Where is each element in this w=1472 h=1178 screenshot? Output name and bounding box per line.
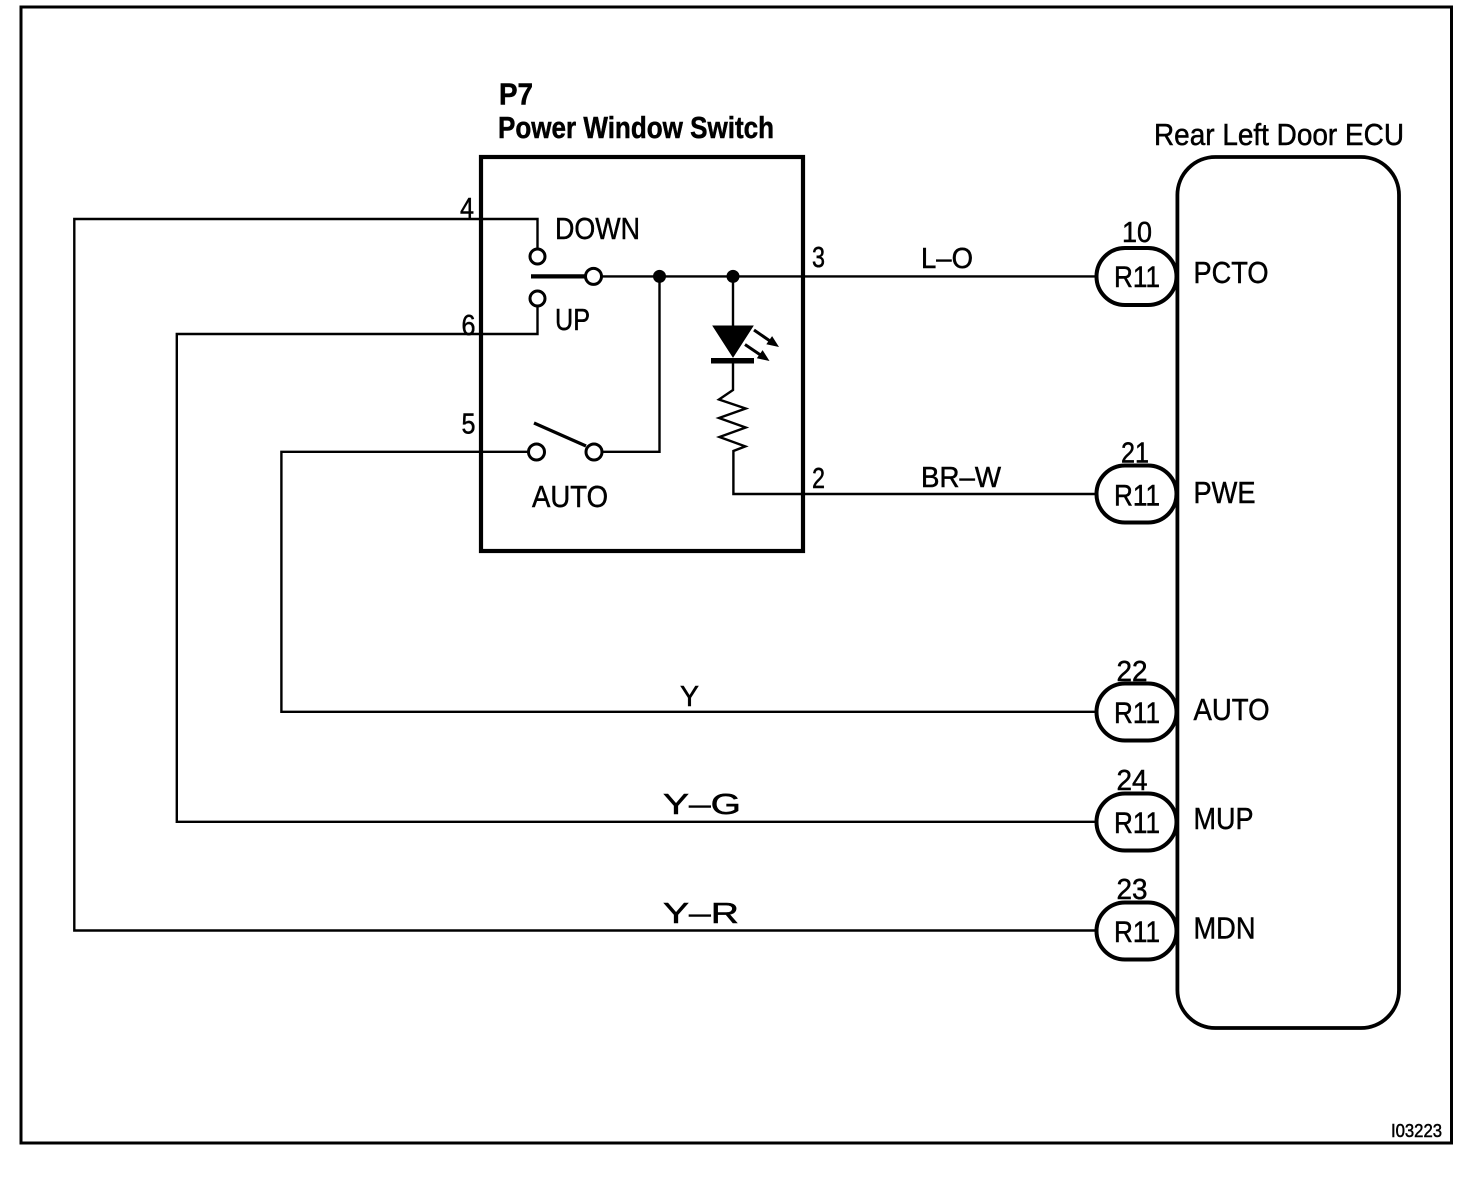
svg-text:Power Window Switch: Power Window Switch [498,110,774,145]
svg-text:R11: R11 [1114,261,1160,294]
svg-text:AUTO: AUTO [1194,692,1270,727]
svg-text:Y: Y [680,681,699,713]
svg-text:UP: UP [555,302,590,337]
svg-text:5: 5 [462,409,476,441]
svg-text:BR–W: BR–W [921,462,1002,494]
svg-text:R11: R11 [1114,916,1160,949]
svg-text:MDN: MDN [1194,911,1256,946]
svg-text:24: 24 [1117,765,1148,797]
svg-text:4: 4 [460,193,474,225]
svg-text:22: 22 [1117,656,1148,688]
svg-text:23: 23 [1117,874,1148,906]
svg-text:Y–R: Y–R [663,898,739,930]
svg-text:MUP: MUP [1194,801,1254,836]
svg-text:Rear Left Door ECU: Rear Left Door ECU [1154,117,1404,152]
svg-text:PCTO: PCTO [1194,255,1269,290]
svg-text:R11: R11 [1114,807,1160,840]
svg-text:L–O: L–O [921,243,973,275]
svg-text:R11: R11 [1114,480,1160,513]
svg-text:I03223: I03223 [1391,1121,1442,1141]
svg-text:2: 2 [812,463,825,495]
svg-text:3: 3 [812,242,825,274]
svg-text:Y–G: Y–G [663,789,741,821]
svg-text:PWE: PWE [1194,475,1256,510]
svg-text:P7: P7 [499,77,533,112]
svg-text:DOWN: DOWN [555,211,640,246]
svg-text:6: 6 [462,310,476,342]
svg-text:AUTO: AUTO [532,479,608,514]
svg-text:10: 10 [1122,217,1152,249]
svg-text:21: 21 [1121,438,1149,470]
svg-text:R11: R11 [1114,697,1160,730]
